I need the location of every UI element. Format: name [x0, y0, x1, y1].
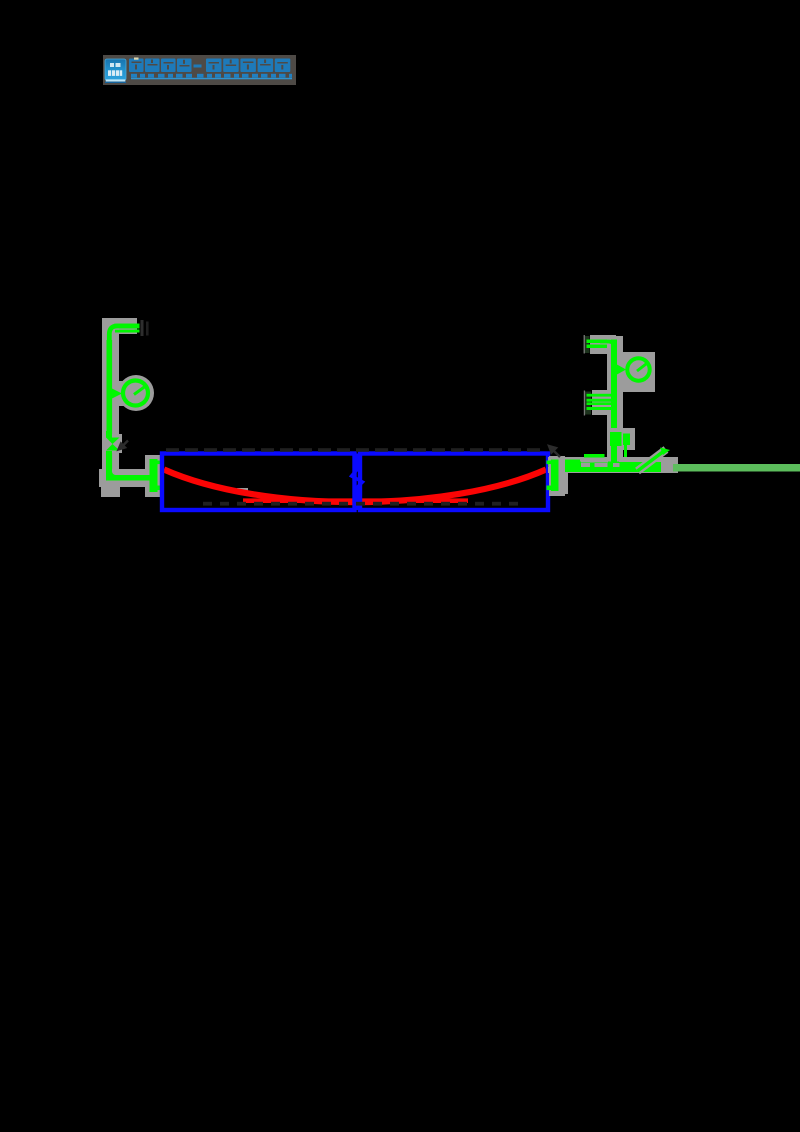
- tank hatch ticks top: [166, 448, 540, 452]
- left pipe end dark tick: [141, 320, 144, 336]
- right 4-line connection: [584, 342, 617, 416]
- tank hatch ticks bottom: [203, 502, 518, 506]
- green stub left on bottom pipe: [565, 460, 580, 465]
- valve V1 on left pipe: [103, 434, 122, 453]
- pressure gauge G1: [112, 375, 154, 411]
- tank break squiggle: [352, 454, 363, 511]
- logo highlight dot: [134, 58, 139, 60]
- bottom pipe band right of tank: [548, 446, 678, 473]
- left vertical pipe: [102, 324, 119, 488]
- red water level curve: [164, 470, 546, 503]
- tank right half (blue): [360, 454, 548, 511]
- gray halo patches below pipe band: [549, 473, 568, 494]
- union V2 on right pipe: [607, 428, 635, 466]
- tank left half (blue): [162, 454, 355, 511]
- left pipe end green dash: [135, 330, 140, 333]
- left pipe joint patches: [106, 326, 152, 481]
- slope diagonal arrow: [638, 448, 671, 472]
- logo halo backdrop: [103, 55, 296, 85]
- left bottom horizontal pipe: [99, 469, 161, 497]
- long medium green pipe to right edge: [673, 464, 800, 472]
- left vent pipe (top horizontal): [102, 318, 140, 345]
- upper branch line on bottom pipe: [584, 454, 605, 458]
- right vertical pipe: [607, 336, 623, 470]
- logo small sub text row: [131, 74, 292, 80]
- right top pipe pair: [584, 335, 617, 354]
- dark leader arrow at valve: [119, 441, 129, 450]
- dark leader arrow at right flange: [549, 446, 560, 457]
- logo main blue text: [129, 59, 290, 73]
- pressure gauge G2: [617, 352, 655, 392]
- logo icon underline: [106, 79, 126, 81]
- gray smudge on curve: [237, 488, 248, 494]
- gray joint dashes on bottom pipe: [581, 458, 661, 467]
- flange F2 at tank right: [547, 456, 566, 496]
- flange F1 at tank left: [144, 455, 164, 497]
- logo icon square: [105, 59, 126, 81]
